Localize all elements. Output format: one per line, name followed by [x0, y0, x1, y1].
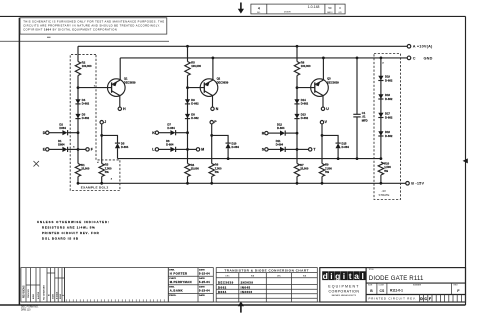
svg-text:D664: D664 — [218, 290, 227, 294]
resistor R7 15,000 — [294, 164, 299, 177]
svg-text:B -15V: B -15V — [411, 182, 424, 186]
diode D5 D-664 (clamp) — [115, 142, 120, 144]
node input E — [77, 148, 80, 151]
resistor R4 15,000 — [185, 164, 190, 177]
-15V rail — [78, 182, 406, 184]
terminal U — [321, 107, 324, 110]
svg-text:D-662: D-662 — [191, 102, 199, 106]
wire clamp branch — [212, 135, 228, 143]
svg-text:078: 078 — [339, 12, 342, 14]
svg-text:D2: D2 — [59, 122, 63, 126]
terminal F — [86, 148, 89, 151]
wire Q3 emitter to gnd rail — [322, 58, 324, 80]
svg-text:D12: D12 — [277, 122, 282, 126]
svg-text:DEC: DEC — [225, 275, 230, 277]
transistor Q2 DEC3639 — [200, 79, 218, 97]
transistor & diode conversion chart — [216, 268, 317, 302]
terminal T — [309, 148, 312, 151]
svg-text:D7: D7 — [167, 122, 171, 126]
node R9 bottom — [321, 182, 324, 185]
svg-text:.01: .01 — [362, 115, 366, 119]
wire Q2 emitter to gnd rail — [212, 58, 214, 80]
svg-text:D1: D1 — [58, 139, 62, 143]
wire input K — [159, 132, 171, 134]
wire Q1 collector down — [119, 96, 121, 108]
terminal H — [118, 107, 121, 110]
svg-text:Q3: Q3 — [327, 77, 331, 81]
svg-text:D664: D664 — [58, 143, 65, 147]
svg-text:7,500: 7,500 — [105, 166, 112, 170]
svg-text:H PORTER: H PORTER — [170, 271, 188, 275]
diode D11 D-664 — [280, 147, 285, 152]
svg-text:R6: R6 — [215, 163, 219, 167]
svg-text:490878: 490878 — [284, 12, 292, 14]
svg-text:D14: D14 — [301, 98, 306, 102]
diode D17 D-662 — [378, 113, 383, 118]
node chain bus — [380, 157, 383, 160]
resistor R1 15,000 — [75, 164, 80, 177]
svg-text:D10: D10 — [232, 141, 237, 145]
svg-text:R5: R5 — [191, 60, 195, 64]
svg-text:R2: R2 — [82, 60, 86, 64]
terminal P — [210, 121, 213, 124]
fold mark X (left) — [34, 161, 40, 167]
node base junction stage3 — [296, 86, 299, 89]
svg-text:M.PERRYMAN: M.PERRYMAN — [170, 280, 192, 284]
fold mark arrow up (bottom) — [238, 302, 244, 313]
svg-text:TRANSISTOR & DIODE CONVERSION: TRANSISTOR & DIODE CONVERSION CHART — [224, 269, 309, 273]
diode D15 D-664 (clamp) — [336, 142, 341, 144]
svg-text:EQUIPMENT: EQUIPMENT — [328, 285, 359, 289]
wire Q3 collector down — [322, 96, 324, 108]
wire base to Q2 — [188, 87, 205, 89]
fold mark arrow down (top) — [238, 3, 244, 14]
diode D19 D-662 — [378, 76, 383, 81]
node +10V rail stage2 — [186, 45, 189, 48]
svg-text:A +10V(A): A +10V(A) — [413, 45, 433, 49]
svg-text:DATE: DATE — [199, 294, 205, 297]
svg-text:D-662: D-662 — [385, 115, 393, 119]
svg-text:R3: R3 — [105, 163, 109, 167]
resistor R10 1,500 5% — [378, 162, 383, 175]
wire input D — [49, 132, 62, 134]
svg-text:d: d — [323, 271, 328, 281]
svg-text:D-662: D-662 — [82, 102, 90, 106]
wire input E — [49, 148, 62, 150]
diode D12 D-664 — [280, 131, 285, 136]
svg-text:REVISIONS: REVISIONS — [24, 285, 26, 298]
svg-text:D6: D6 — [166, 139, 170, 143]
svg-text:TITLE: TITLE — [369, 269, 375, 271]
svg-text:THIS SCHEMATIC IS FURNISHED ON: THIS SCHEMATIC IS FURNISHED ONLY FOR TES… — [23, 19, 164, 23]
svg-text:R8: R8 — [301, 60, 305, 64]
wire input S — [268, 148, 280, 150]
svg-text:C: C — [413, 56, 416, 60]
+10V rail — [78, 45, 407, 47]
empty schedule box with ruler ticks — [65, 268, 169, 302]
svg-text:R10: R10 — [384, 162, 389, 166]
terminal V — [320, 121, 323, 124]
wire base to Q3 — [297, 87, 315, 89]
diode D2 D664 — [62, 130, 67, 135]
svg-text:EXAMPLE DGL2: EXAMPLE DGL2 — [81, 186, 109, 190]
wire to expander T — [297, 148, 309, 150]
svg-text:DEC3639: DEC3639 — [124, 81, 136, 85]
svg-text:STRATE: STRATE — [379, 193, 390, 197]
bottom heavy border — [0, 304, 466, 306]
wire chain — [380, 58, 382, 159]
terminal M — [196, 148, 199, 151]
svg-text:D-664: D-664 — [167, 126, 175, 130]
node input L — [186, 148, 189, 151]
node clamp to bus — [227, 157, 230, 160]
svg-text:a: a — [354, 271, 359, 281]
wire main line stage3 — [296, 46, 298, 183]
svg-text:D-662: D-662 — [191, 116, 199, 120]
svg-text:i: i — [343, 271, 345, 281]
diode D6 D-664 — [170, 147, 175, 152]
svg-text:Q1: Q1 — [124, 77, 128, 81]
svg-text:D-662: D-662 — [385, 97, 393, 101]
svg-text:R4: R4 — [191, 163, 195, 167]
node C1 bottom on bus — [356, 157, 359, 160]
svg-text:D664: D664 — [59, 126, 66, 130]
node C1 top — [356, 57, 359, 60]
capacitor C1 .01 MFD — [356, 58, 358, 114]
diode D8 D-662 — [185, 114, 190, 119]
svg-text:D-664: D-664 — [121, 145, 129, 149]
node chain top — [380, 57, 383, 60]
svg-text:5%: 5% — [215, 170, 219, 174]
svg-text:D662: D662 — [218, 285, 227, 289]
svg-text:J: J — [104, 120, 106, 124]
svg-text:15,000: 15,000 — [191, 167, 200, 171]
svg-text:5%: 5% — [105, 170, 109, 174]
svg-text:100,000: 100,000 — [301, 64, 311, 68]
svg-text:NO CHANGES: NO CHANGES — [43, 285, 46, 300]
svg-text:5-23-64: 5-23-64 — [199, 289, 210, 293]
svg-text:D5: D5 — [121, 141, 125, 145]
svg-text:5-15-64: 5-15-64 — [199, 271, 210, 275]
node input D — [77, 131, 80, 134]
digital logo — [322, 271, 328, 280]
svg-text:PRINTED CIRCUIT REV. FOR: PRINTED CIRCUIT REV. FOR — [42, 231, 100, 235]
svg-text:CS: CS — [380, 289, 385, 293]
diode D9 D-662 — [185, 99, 190, 104]
wire load line P — [211, 124, 213, 164]
svg-text:g: g — [335, 271, 340, 281]
node input S — [296, 148, 299, 151]
svg-text:7,500: 7,500 — [325, 166, 332, 170]
terminal J — [100, 121, 103, 124]
wire to expander M — [188, 148, 197, 150]
svg-text:D18: D18 — [385, 93, 390, 97]
svg-text:PROD.: PROD. — [169, 295, 176, 297]
right border — [465, 16, 467, 305]
svg-text:REV.: REV. — [454, 285, 459, 287]
svg-text:1-0-148: 1-0-148 — [308, 5, 320, 9]
svg-text:CODE: CODE — [378, 285, 384, 287]
svg-text:PRINTED CIRCUIT REV.: PRINTED CIRCUIT REV. — [369, 297, 417, 301]
small dash mark — [47, 36, 51, 38]
svg-text:4: 4 — [258, 6, 260, 10]
svg-text:NO.: NO. — [257, 12, 261, 14]
svg-text:6634: 6634 — [59, 293, 62, 299]
wire Q2 collector down — [212, 96, 214, 108]
node R10 bottom — [380, 182, 383, 185]
left border — [18, 18, 20, 305]
svg-text:A 4766: A 4766 — [37, 291, 40, 299]
svg-text:DRB 110: DRB 110 — [21, 309, 31, 312]
svg-text:100,000: 100,000 — [191, 64, 201, 68]
svg-text:CORPORATION: CORPORATION — [328, 289, 359, 293]
svg-text:5-25-64: 5-25-64 — [199, 280, 210, 284]
diode D16 D-662 — [378, 131, 383, 136]
diode D7 D-664 — [170, 130, 175, 135]
svg-text:RESISTORS ARE 1/4W; 5%: RESISTORS ARE 1/4W; 5% — [42, 226, 95, 230]
svg-text:50: 50 — [328, 6, 332, 10]
wire input R — [268, 132, 280, 134]
svg-text:SIZE: SIZE — [368, 285, 373, 287]
svg-text:D-662: D-662 — [301, 116, 309, 120]
svg-text:R111-0-1: R111-0-1 — [390, 289, 403, 293]
svg-text:D3: D3 — [82, 113, 86, 117]
svg-text:D-664: D-664 — [277, 126, 285, 130]
svg-text:R9: R9 — [325, 163, 329, 167]
title block — [320, 268, 466, 302]
svg-text:IN645: IN645 — [241, 285, 251, 289]
svg-text:DEC3639: DEC3639 — [327, 81, 339, 85]
strip bottom line — [21, 301, 466, 303]
svg-text:5%: 5% — [384, 169, 388, 173]
svg-text:D-662: D-662 — [82, 116, 90, 120]
svg-text:E 5459: E 5459 — [55, 291, 58, 299]
svg-text:GND: GND — [424, 56, 433, 60]
wire load line J — [101, 124, 103, 164]
wire clamp branch — [322, 135, 338, 143]
resistor R8 100,000 — [294, 62, 299, 76]
svg-text:5%: 5% — [325, 170, 329, 174]
svg-text:7,500: 7,500 — [215, 166, 222, 170]
svg-text:A.BANK: A.BANK — [170, 289, 183, 293]
secondary top line (left portion) — [0, 40, 169, 42]
diode D14 D-662 — [294, 99, 299, 104]
node R1 bottom — [77, 182, 80, 185]
node clamp branch — [321, 134, 324, 137]
terminal N — [211, 107, 214, 110]
svg-text:D-662: D-662 — [385, 78, 393, 82]
top border line — [0, 15, 466, 17]
-3V clamp bus — [118, 158, 381, 160]
svg-text:MFD: MFD — [362, 119, 368, 123]
svg-text:D17: D17 — [385, 112, 390, 116]
svg-text:M: M — [201, 148, 204, 152]
wire clamp branch — [102, 135, 118, 143]
svg-text:D-664: D-664 — [276, 143, 284, 147]
diode D13 D-662 — [294, 114, 299, 119]
svg-text:t: t — [349, 271, 352, 281]
resistor R9 7,500 5% — [319, 164, 324, 177]
svg-text:D11: D11 — [276, 139, 281, 143]
svg-text:D9: D9 — [191, 98, 195, 102]
svg-text:4266: 4266 — [32, 293, 35, 299]
svg-text:MAYNARD. MASSACHUSETTS: MAYNARD. MASSACHUSETTS — [332, 294, 357, 297]
svg-text:DIODE GATE R111: DIODE GATE R111 — [369, 275, 424, 282]
svg-text:D-664: D-664 — [342, 145, 350, 149]
svg-text:D13: D13 — [301, 113, 306, 117]
svg-text:D16: D16 — [385, 130, 390, 134]
svg-text:5439: 5439 — [52, 293, 55, 299]
diode D4 D-662 — [75, 99, 80, 104]
svg-text:1,500: 1,500 — [384, 165, 391, 169]
node R3 bottom — [100, 182, 103, 185]
node base junction stage2 — [186, 86, 189, 89]
diode D10 D-664 (clamp) — [226, 142, 231, 144]
svg-text:D-664: D-664 — [232, 145, 240, 149]
node R7 bottom — [296, 182, 299, 185]
svg-text:D-664: D-664 — [166, 143, 174, 147]
wire input L — [159, 148, 171, 150]
svg-text:COPYRIGHT 1964 BY DIGITAL EQUI: COPYRIGHT 1964 BY DIGITAL EQUIPMENT CORP… — [23, 27, 117, 31]
wire base to Q1 — [78, 87, 112, 89]
drn/chkd/eng/prod table — [168, 268, 213, 302]
wire load line V — [321, 124, 323, 164]
svg-text:Q2: Q2 — [217, 77, 221, 81]
svg-text:DGL BOARD IS 9B: DGL BOARD IS 9B — [42, 236, 79, 240]
resistor R5 100,000 — [185, 62, 190, 76]
fold mark arrow (right border) — [463, 158, 468, 163]
wire main line stage2 — [187, 46, 189, 183]
diode D1 D664 — [62, 147, 67, 152]
wire main line stage1 — [77, 46, 79, 183]
node base junction stage1 — [77, 86, 80, 89]
svg-text:D4: D4 — [82, 98, 86, 102]
svg-text:D-662: D-662 — [301, 102, 309, 106]
wire to expander F — [78, 148, 86, 150]
svg-text:i: i — [330, 271, 332, 281]
resistor R6 7,500 5% — [209, 164, 214, 177]
node R6 bottom — [210, 182, 213, 185]
terminal A — [407, 45, 411, 49]
svg-text:R7: R7 — [300, 163, 304, 167]
svg-text:D19: D19 — [385, 75, 390, 79]
wire Q1 emitter to gnd rail — [119, 58, 121, 80]
svg-text:2N3639: 2N3639 — [241, 281, 254, 285]
svg-text:UNLESS OTHERWISE INDICATED:: UNLESS OTHERWISE INDICATED: — [37, 220, 110, 224]
node input R — [296, 132, 299, 135]
svg-text:DEC3639: DEC3639 — [218, 281, 234, 285]
node clamp branch — [100, 134, 103, 137]
svg-text:D15: D15 — [342, 141, 347, 145]
svg-text:D-662: D-662 — [385, 134, 393, 138]
resistor R2 100,000 — [75, 62, 80, 76]
svg-text:MACO: MACO — [327, 11, 333, 14]
svg-text:DEC: DEC — [277, 275, 282, 277]
svg-text:CIRCUITS ARE PROPRIETARY IN NA: CIRCUITS ARE PROPRIETARY IN NATURE AND S… — [23, 23, 160, 27]
terminal C — [407, 56, 411, 60]
svg-text:15,000: 15,000 — [81, 167, 90, 171]
transistor Q1 DEC3639 — [108, 79, 126, 97]
ground rail — [120, 57, 407, 59]
terminal B — [406, 182, 410, 186]
svg-text:R1: R1 — [81, 163, 85, 167]
svg-text:IN3606: IN3606 — [241, 290, 253, 294]
resistor R3 7,500 5% — [99, 164, 104, 177]
node clamp branch — [210, 134, 213, 137]
node +10V rail stage3 — [296, 45, 299, 48]
node clamp to bus — [337, 157, 340, 160]
diode D3 D-662 — [75, 114, 80, 119]
node input K — [186, 131, 189, 134]
svg-text:l: l — [362, 271, 364, 281]
svg-text:C1: C1 — [362, 111, 366, 115]
svg-text:D8: D8 — [191, 113, 195, 117]
transistor Q3 DEC3639 — [311, 79, 329, 97]
diode D18 D-662 — [378, 94, 383, 99]
node R4 bottom — [186, 182, 189, 185]
svg-text:CHG NO: CHG NO — [28, 289, 30, 298]
svg-text:DEC3639: DEC3639 — [217, 81, 229, 85]
svg-text:15,000: 15,000 — [300, 167, 309, 171]
svg-text:100,000: 100,000 — [82, 64, 92, 68]
svg-text:NUMBER: NUMBER — [413, 285, 422, 287]
